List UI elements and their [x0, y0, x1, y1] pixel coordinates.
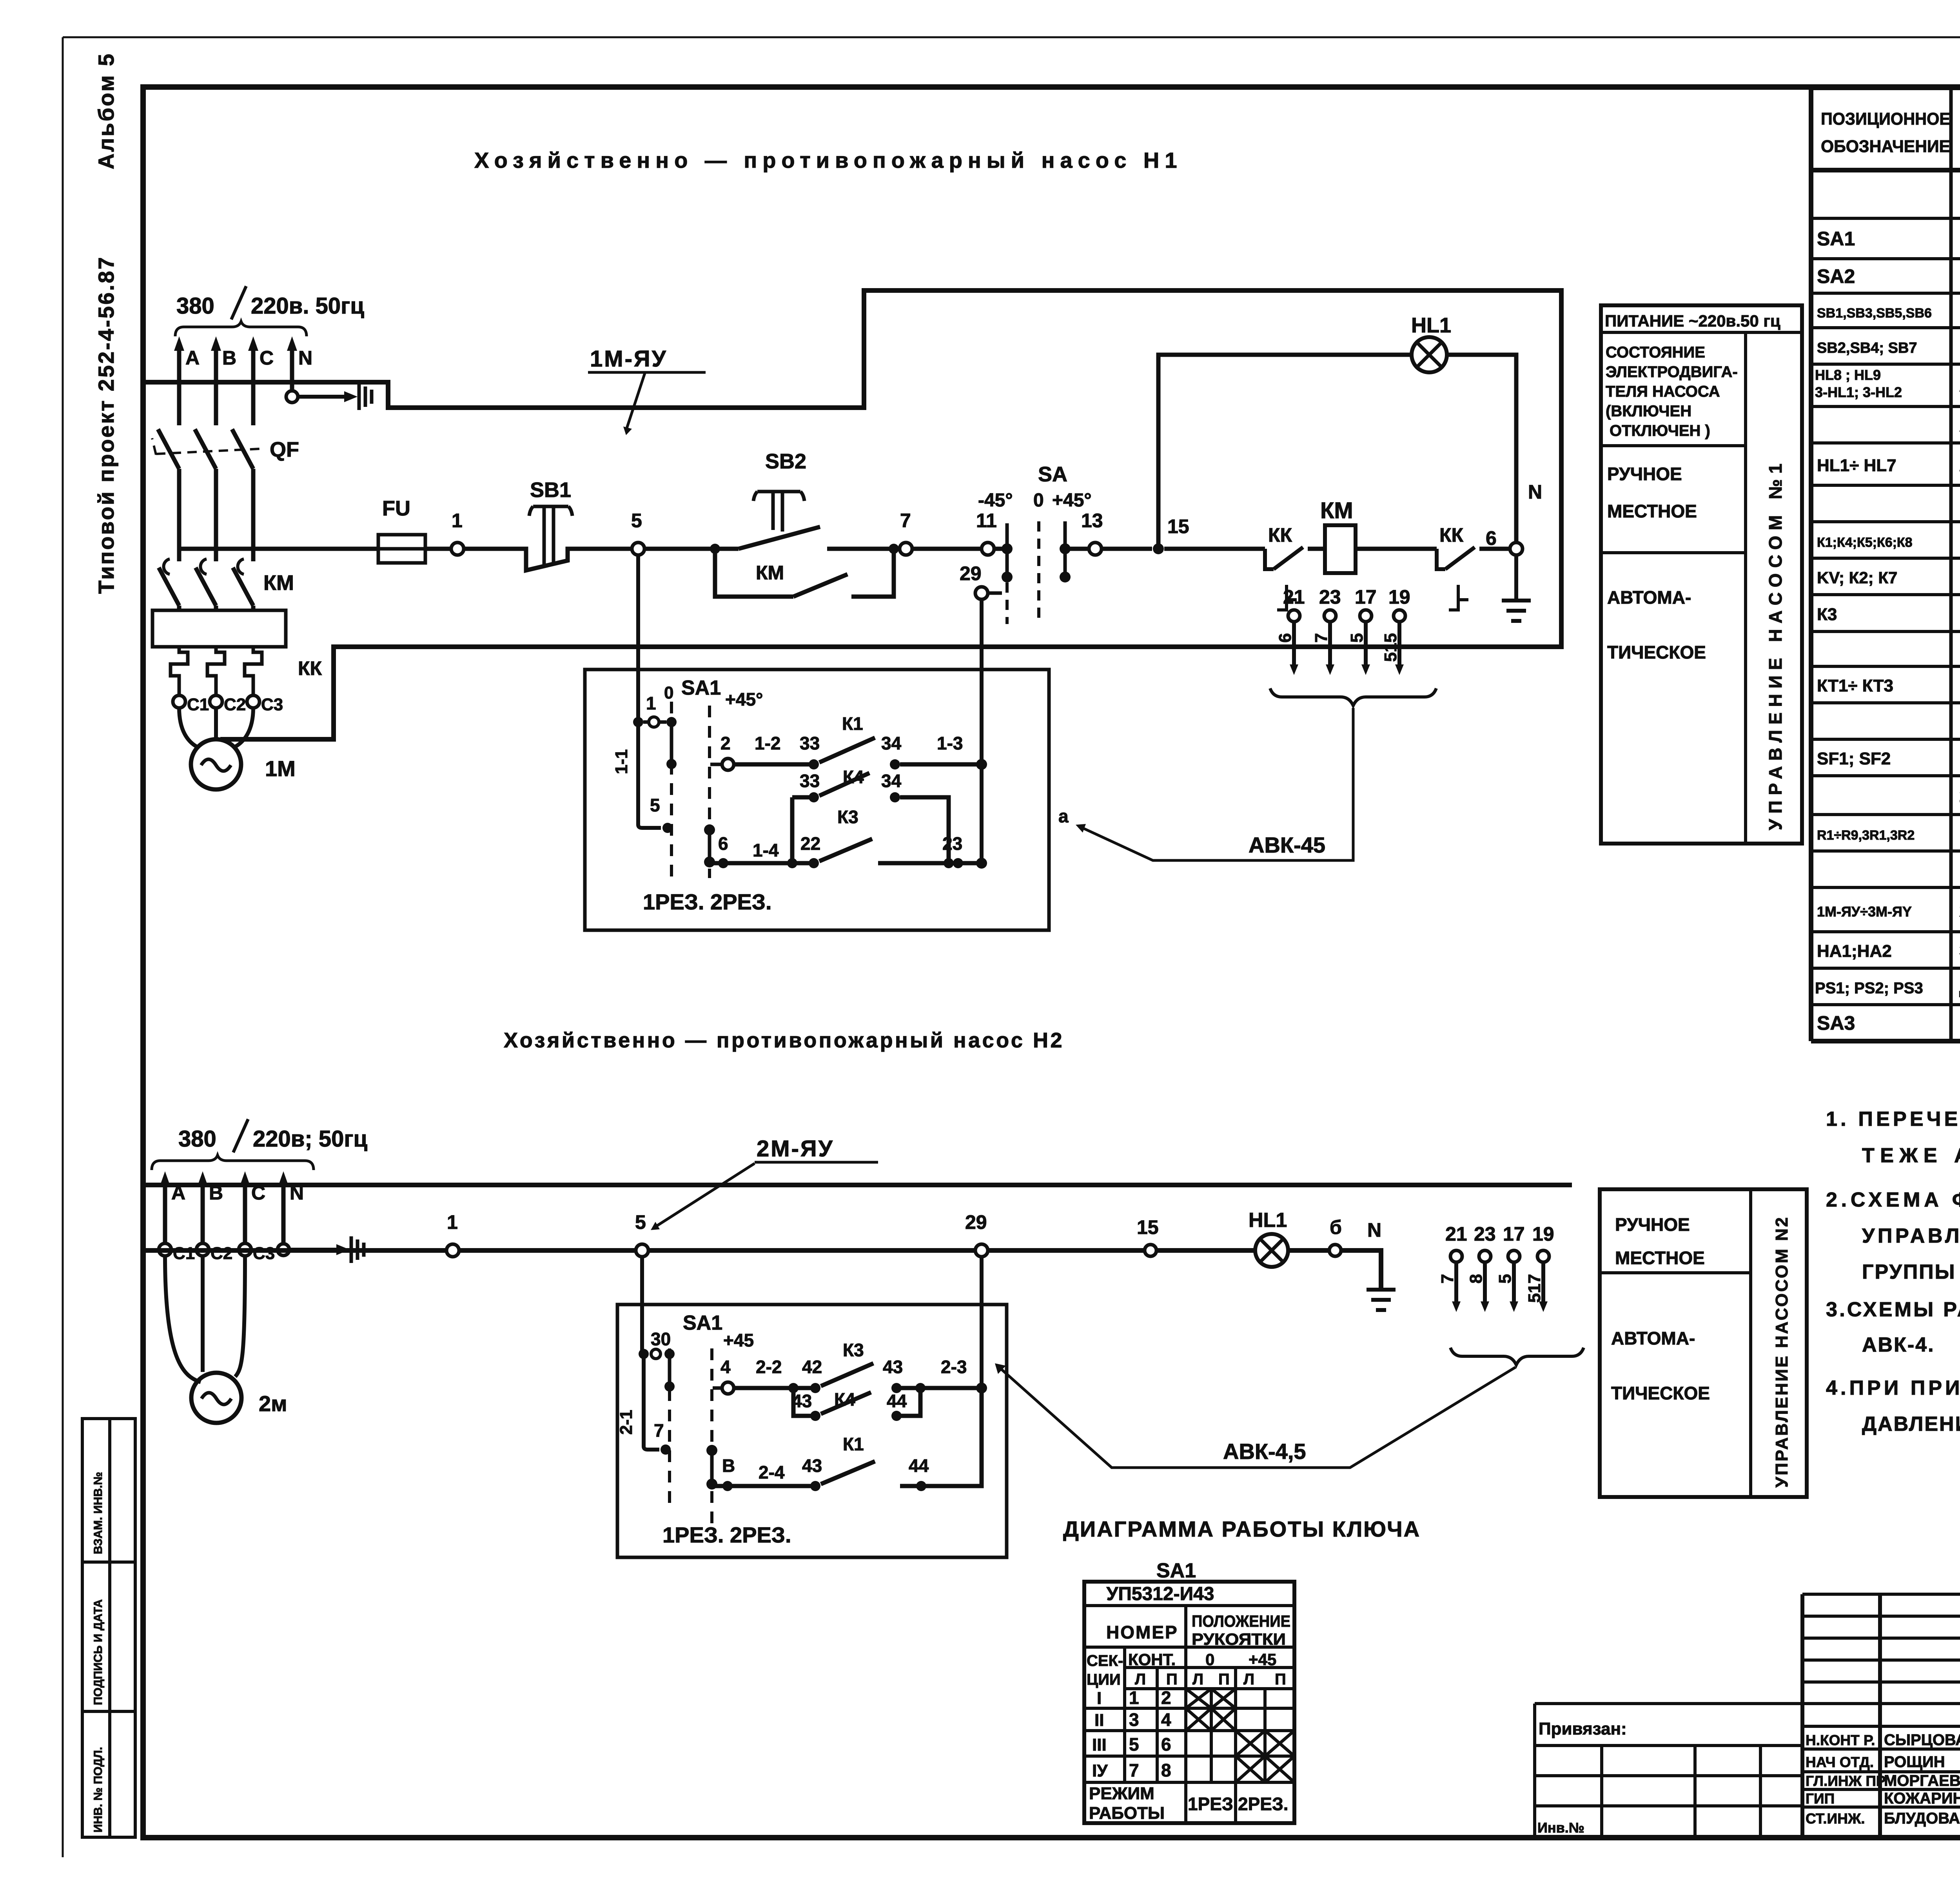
- node 1: [451, 543, 464, 555]
- node 5 N2: [636, 1244, 648, 1257]
- signal description box N1: [1601, 305, 1802, 844]
- node 11: [982, 543, 994, 555]
- thermal relay KK box: [152, 610, 286, 647]
- svg-text:1. ПЕРЕЧЕНЬ ФУНКЦИОНАЛЬНЫХ ГРУ: 1. ПЕРЕЧЕНЬ ФУНКЦИОНАЛЬНЫХ ГРУПП ПРИВЕДЕ…: [1826, 1108, 1960, 1130]
- svg-text:1М-ЯУ: 1М-ЯУ: [590, 346, 668, 372]
- SA1 column +45 dashed N2: [710, 1348, 713, 1525]
- wire control rung N1: [179, 547, 1152, 551]
- node 29: [975, 587, 988, 599]
- svg-text:ГРУППЫ ≠1.: ГРУППЫ ≠1.: [1862, 1261, 1960, 1283]
- svg-text:КК: КК: [1439, 524, 1464, 546]
- svg-text:РУЧНОЕ: РУЧНОЕ: [1607, 464, 1682, 484]
- svg-text:АВК-45: АВК-45: [1249, 833, 1325, 857]
- svg-text:С1: С1: [187, 695, 209, 714]
- svg-text:2-2: 2-2: [756, 1357, 782, 1377]
- svg-text:СЫРЦОВА: СЫРЦОВА: [1884, 1731, 1960, 1749]
- SA1 column +45 dashed N1: [708, 706, 711, 878]
- svg-text:4: 4: [720, 1357, 731, 1377]
- relay contact K1 rung N2: [712, 1388, 982, 1486]
- motor 2M: [191, 1373, 241, 1423]
- svg-text:21: 21: [1283, 586, 1305, 608]
- svg-text:РАБОТЫ: РАБОТЫ: [1089, 1804, 1165, 1823]
- svg-text:23: 23: [942, 833, 962, 854]
- svg-text:1-4: 1-4: [753, 840, 779, 860]
- svg-text:220в. 50гц: 220в. 50гц: [251, 293, 364, 319]
- wire phase bus N1: [143, 290, 1561, 739]
- svg-text:(ВКЛЮЧЕН: (ВКЛЮЧЕН: [1606, 403, 1691, 420]
- callout AVK-45 N2: [1000, 1367, 1515, 1468]
- svg-text:АВК-4,5: АВК-4,5: [1223, 1439, 1306, 1464]
- svg-text:1РЕЗ. 2РЕЗ.: 1РЕЗ. 2РЕЗ.: [662, 1522, 791, 1547]
- svg-text:П: П: [1218, 1671, 1230, 1688]
- SA1 contact 4 N2: [713, 1386, 721, 1390]
- relay contact K3 rung N2: [734, 1386, 982, 1390]
- svg-text:П: П: [1166, 1671, 1178, 1688]
- svg-text:SB2,SB4; SB7: SB2,SB4; SB7: [1817, 340, 1917, 356]
- svg-text:ПОЛОЖЕНИЕ: ПОЛОЖЕНИЕ: [1192, 1612, 1290, 1630]
- svg-text:4: 4: [1161, 1709, 1171, 1730]
- svg-text:7: 7: [1312, 633, 1331, 642]
- svg-text:6: 6: [1276, 633, 1295, 642]
- svg-text:5: 5: [635, 1211, 646, 1233]
- svg-text:517: 517: [1525, 1274, 1544, 1303]
- svg-text:43: 43: [883, 1357, 903, 1377]
- svg-text:К1: К1: [843, 1434, 864, 1454]
- svg-text:К4: К4: [834, 1389, 855, 1410]
- KK heater element: [245, 647, 262, 695]
- svg-text:С1: С1: [173, 1244, 195, 1263]
- wire node29 down: [980, 599, 984, 863]
- svg-text:ПОЗИЦИОННОЕ: ПОЗИЦИОННОЕ: [1821, 109, 1950, 129]
- svg-text:HL8 ; HL9: HL8 ; HL9: [1815, 367, 1881, 383]
- svg-text:СЕК-: СЕК-: [1087, 1652, 1123, 1669]
- svg-text:ГЛ.ИНЖ ПР: ГЛ.ИНЖ ПР: [1806, 1773, 1886, 1789]
- svg-text:1: 1: [646, 693, 656, 713]
- svg-text:8: 8: [1466, 1274, 1486, 1283]
- svg-text:МЕСТНОЕ: МЕСТНОЕ: [1607, 501, 1697, 521]
- svg-text:11: 11: [976, 510, 997, 532]
- svg-text:FU: FU: [382, 497, 410, 520]
- wire top bus N2: [143, 1183, 1572, 1187]
- left bottom stamp boxes: [82, 1419, 135, 1837]
- motor terminal 1: [173, 695, 185, 708]
- svg-text:РУЧНОЕ: РУЧНОЕ: [1615, 1214, 1690, 1235]
- KK heater element: [207, 647, 225, 695]
- svg-text:АВТОМА-: АВТОМА-: [1611, 1328, 1695, 1348]
- lamp HL1 N2: [1255, 1234, 1288, 1267]
- svg-text:17: 17: [1355, 586, 1377, 608]
- svg-text:0: 0: [1205, 1650, 1214, 1669]
- motor 1M: [191, 739, 241, 789]
- svg-text:HL1: HL1: [1411, 314, 1451, 337]
- svg-text:МОРГАЕВОВ: МОРГАЕВОВ: [1884, 1772, 1960, 1789]
- svg-text:В: В: [722, 1455, 735, 1476]
- svg-text:Инв.№: Инв.№: [1537, 1820, 1584, 1836]
- svg-text:ПОДПИСЬ И ДАТА: ПОДПИСЬ И ДАТА: [92, 1599, 105, 1705]
- svg-text:PS1; PS2; PS3: PS1; PS2; PS3: [1815, 980, 1923, 997]
- svg-text:34: 34: [881, 733, 902, 753]
- svg-text:SA: SA: [1038, 463, 1067, 486]
- svg-text:ЦИИ: ЦИИ: [1087, 1671, 1121, 1688]
- svg-text:НАЧ ОТД.: НАЧ ОТД.: [1806, 1754, 1874, 1770]
- svg-text:515: 515: [1381, 633, 1400, 662]
- wire control rung N2: [143, 1250, 1381, 1290]
- svg-text:2-1: 2-1: [617, 1410, 636, 1435]
- svg-text:УП5312-И43: УП5312-И43: [1106, 1584, 1214, 1604]
- svg-text:Л: Л: [1243, 1671, 1254, 1688]
- svg-text:43: 43: [792, 1391, 812, 1411]
- svg-text:2: 2: [1161, 1688, 1171, 1708]
- svg-text:2.СХЕМА ФУНКЦИОНАЛЬНОЙ ГРУПП: 2.СХЕМА ФУНКЦИОНАЛЬНОЙ ГРУППЫ ≠2 В ЧАСТИ…: [1826, 1188, 1960, 1211]
- svg-text:23: 23: [1474, 1223, 1496, 1245]
- svg-text:КТ1÷ КТ3: КТ1÷ КТ3: [1817, 676, 1893, 695]
- switch SA column 0: [1037, 521, 1040, 621]
- svg-text:19: 19: [1532, 1223, 1554, 1245]
- svg-text:SB1,SB3,SB5,SB6: SB1,SB3,SB5,SB6: [1817, 306, 1932, 321]
- svg-text:НОМЕР: НОМЕР: [1106, 1622, 1178, 1642]
- phase arrow &#1057; N2: [243, 1183, 247, 1243]
- SA1 contact 2 N1: [710, 763, 721, 766]
- parts table frame: [1811, 88, 1960, 1041]
- svg-text:SB1: SB1: [530, 478, 571, 502]
- cable bracket N1: [1270, 688, 1436, 706]
- svg-text:ПИТАНИЕ ~220в.50 гц: ПИТАНИЕ ~220в.50 гц: [1605, 312, 1780, 330]
- svg-text:34: 34: [881, 771, 902, 791]
- svg-text:+45°: +45°: [1052, 490, 1092, 511]
- svg-text:1: 1: [1129, 1688, 1139, 1708]
- svg-text:1: 1: [447, 1211, 458, 1233]
- svg-text:УПРАВЛЕНИЕ НАСОСОМ N2: УПРАВЛЕНИЕ НАСОСОМ N2: [1772, 1216, 1791, 1488]
- svg-text:ГИП: ГИП: [1806, 1791, 1835, 1807]
- phase arrow &#1042; N2: [201, 1183, 205, 1243]
- svg-text:II: II: [1094, 1711, 1104, 1730]
- svg-text:Альбом 5: Альбом 5: [94, 52, 118, 169]
- svg-text:Хозяйственно — противопожарный: Хозяйственно — противопожарный насос Н2: [504, 1029, 1064, 1052]
- svg-text:5: 5: [650, 795, 660, 815]
- privyazan block: [1535, 1704, 1802, 1837]
- svg-text:2РЕЗ.: 2РЕЗ.: [1238, 1794, 1289, 1814]
- svg-text:1: 1: [452, 510, 463, 532]
- svg-text:РУКОЯТКИ: РУКОЯТКИ: [1192, 1630, 1286, 1648]
- svg-text:Л: Л: [1135, 1671, 1146, 1688]
- svg-text:5: 5: [631, 510, 642, 532]
- cable bracket N2: [1450, 1348, 1584, 1365]
- svg-text:1РЕЗ. 2РЕЗ.: 1РЕЗ. 2РЕЗ.: [643, 889, 772, 914]
- svg-text:П: П: [1275, 1671, 1286, 1688]
- svg-text:А: А: [185, 347, 200, 369]
- svg-text:380: 380: [176, 293, 214, 319]
- svg-text:БЛУДОВА: БЛУДОВА: [1884, 1810, 1960, 1827]
- svg-text:SA1: SA1: [683, 1312, 722, 1334]
- phase arrow &#1057; N1: [251, 348, 256, 425]
- svg-text:19: 19: [1388, 586, 1410, 608]
- svg-text:44: 44: [909, 1455, 929, 1476]
- svg-text:ДИАГРАММА РАБОТЫ КЛЮЧА: ДИАГРАММА РАБОТЫ КЛЮЧА: [1063, 1517, 1421, 1541]
- node 6 N1: [1510, 543, 1523, 555]
- relay contact K3 rung: [710, 861, 982, 866]
- svg-text:HL1: HL1: [1249, 1209, 1287, 1232]
- svg-text:К1: К1: [842, 713, 863, 734]
- svg-text:1-3: 1-3: [937, 733, 963, 753]
- svg-text:5: 5: [1129, 1734, 1139, 1755]
- svg-text:СОСТОЯНИЕ: СОСТОЯНИЕ: [1606, 344, 1705, 361]
- svg-text:КК: КК: [1268, 524, 1292, 546]
- svg-text:23: 23: [1319, 586, 1341, 608]
- svg-text:МЕСТНОЕ: МЕСТНОЕ: [1615, 1248, 1705, 1268]
- svg-text:7: 7: [1129, 1760, 1139, 1780]
- svg-text:1М: 1М: [265, 756, 296, 781]
- title block signature table: [1802, 1594, 1960, 1837]
- svg-text:Н.КОНТ Р.: Н.КОНТ Р.: [1806, 1732, 1875, 1748]
- svg-text:б: б: [1330, 1216, 1342, 1238]
- wire node5 down to SA1: [636, 555, 640, 722]
- node 1 N2: [446, 1244, 459, 1257]
- svg-text:АВК-4.: АВК-4.: [1862, 1334, 1935, 1356]
- svg-text:К1;К4;К5;К6;К8: К1;К4;К5;К6;К8: [1817, 535, 1913, 550]
- svg-text:III: III: [1092, 1735, 1107, 1755]
- relay contact K4 row: [792, 797, 949, 863]
- svg-text:ОТКЛЮЧЕН ): ОТКЛЮЧЕН ): [1610, 422, 1710, 439]
- signal description box N2: [1600, 1189, 1807, 1497]
- relay contact K1 rung: [734, 762, 982, 767]
- circuit breaker QF: [158, 429, 179, 561]
- switch SA column +45: [1060, 543, 1071, 554]
- node 7: [900, 543, 912, 555]
- svg-text:380: 380: [178, 1126, 216, 1152]
- svg-text:KV; К2; К7: KV; К2; К7: [1817, 568, 1897, 587]
- svg-text:СТ.ИНЖ.: СТ.ИНЖ.: [1806, 1811, 1865, 1827]
- svg-text:3-HL1; 3-HL2: 3-HL1; 3-HL2: [1815, 384, 1902, 400]
- motor terminal 1 N2: [159, 1243, 171, 1256]
- svg-text:8: 8: [1161, 1760, 1171, 1780]
- fuse FU: [378, 535, 425, 563]
- SA1 column 0 dashed N2: [668, 1348, 671, 1511]
- svg-text:220в; 50гц: 220в; 50гц: [253, 1126, 368, 1152]
- svg-text:0: 0: [1033, 490, 1044, 511]
- svg-text:ОБОЗНАЧЕНИЕ: ОБОЗНАЧЕНИЕ: [1821, 137, 1950, 156]
- control box 1M-YU outline N1: [585, 670, 1049, 930]
- svg-text:К3: К3: [837, 807, 858, 827]
- svg-text:С2: С2: [224, 695, 246, 714]
- motor leads N1: [179, 708, 253, 748]
- svg-text:13: 13: [1081, 510, 1103, 532]
- phase arrow &#1040; N1: [177, 348, 181, 425]
- node 13: [1089, 543, 1102, 555]
- svg-text:3: 3: [1129, 1709, 1139, 1730]
- svg-text:21: 21: [1445, 1223, 1467, 1245]
- svg-text:N: N: [1528, 481, 1542, 503]
- svg-text:+45: +45: [723, 1330, 754, 1350]
- neutral arrow N N2: [281, 1183, 286, 1243]
- svg-text:2: 2: [720, 733, 731, 753]
- switch SA column -45: [1002, 543, 1013, 554]
- svg-text:НА1;НА2: НА1;НА2: [1817, 942, 1892, 961]
- svg-text:5: 5: [1347, 633, 1367, 642]
- node 29 N2: [975, 1244, 988, 1257]
- svg-text:ДАВЛЕНИЯ.: ДАВЛЕНИЯ.: [1862, 1413, 1960, 1435]
- svg-text:1-1: 1-1: [612, 749, 631, 774]
- svg-text:а: а: [1058, 806, 1069, 826]
- svg-text:УПРАВЛЕНИЕ НАСОСОМ №1: УПРАВЛЕНИЕ НАСОСОМ №1: [1765, 458, 1786, 830]
- terminal N circle and PE N2: [278, 1244, 289, 1256]
- motor terminal 3: [247, 695, 260, 708]
- callout AVK-45 N1: [1081, 708, 1353, 860]
- svg-text:SF1; SF2: SF1; SF2: [1817, 749, 1891, 768]
- svg-text:29: 29: [960, 563, 982, 584]
- svg-text:2-3: 2-3: [941, 1357, 967, 1377]
- brace N2 supply: [152, 1155, 314, 1170]
- svg-text:Типовой проект 252-4-56.87: Типовой проект 252-4-56.87: [94, 256, 118, 594]
- node 6 N2: [1329, 1245, 1341, 1256]
- svg-text:33: 33: [800, 733, 820, 753]
- svg-text:7: 7: [900, 510, 911, 532]
- svg-text:РОЩИН: РОЩИН: [1884, 1753, 1945, 1771]
- svg-text:15: 15: [1137, 1216, 1159, 1238]
- lamp HL1 N1: [1412, 337, 1447, 372]
- wire coil rung N1: [1164, 547, 1510, 551]
- svg-text:SA1: SA1: [1156, 1559, 1196, 1582]
- key table X marks: [1186, 1689, 1211, 1708]
- svg-text:SB2: SB2: [765, 450, 806, 473]
- svg-text:2М-ЯУ: 2М-ЯУ: [757, 1136, 834, 1161]
- svg-text:29: 29: [965, 1211, 987, 1233]
- svg-text:I: I: [1097, 1689, 1102, 1708]
- SA1 column 0 dashed N1: [670, 702, 673, 878]
- svg-text:SA3: SA3: [1817, 1012, 1855, 1034]
- svg-text:HL1÷ HL7: HL1÷ HL7: [1817, 456, 1896, 475]
- node 15: [1153, 543, 1164, 554]
- svg-text:КОЖАРИНОВА: КОЖАРИНОВА: [1884, 1790, 1960, 1807]
- svg-text:7: 7: [1438, 1274, 1457, 1283]
- node 15 N2: [1145, 1245, 1156, 1256]
- svg-text:SA2: SA2: [1817, 265, 1855, 287]
- svg-text:6: 6: [1486, 527, 1497, 549]
- svg-text:R1÷R9,3R1,3R2: R1÷R9,3R1,3R2: [1817, 828, 1915, 843]
- svg-text:ВЗАМ. ИНВ.№: ВЗАМ. ИНВ.№: [92, 1472, 105, 1554]
- svg-text:22: 22: [800, 833, 820, 854]
- relay contact K4 row N2: [793, 1388, 920, 1416]
- svg-text:КК: КК: [298, 657, 322, 679]
- svg-text:43: 43: [802, 1455, 822, 1476]
- svg-text:К3: К3: [843, 1340, 864, 1360]
- contactor KM auxiliary holding contact: [710, 544, 720, 554]
- svg-text:1М-ЯУ÷3М-ЯY: 1М-ЯУ÷3М-ЯY: [1817, 904, 1912, 920]
- neutral arrow N N1: [290, 348, 294, 390]
- svg-text:КОНТ.: КОНТ.: [1128, 1650, 1176, 1669]
- svg-text:РЕЖИМ: РЕЖИМ: [1089, 1784, 1154, 1803]
- svg-text:ЭЛЕКТРОДВИГА-: ЭЛЕКТРОДВИГА-: [1606, 363, 1738, 381]
- svg-text:33: 33: [800, 771, 820, 791]
- svg-text:SA1: SA1: [681, 677, 721, 699]
- svg-text:+45: +45: [1249, 1650, 1276, 1669]
- svg-text:0: 0: [664, 683, 673, 702]
- terminal N circle and PE arrow N1: [286, 391, 298, 403]
- svg-text:42: 42: [802, 1357, 822, 1377]
- svg-text:N: N: [298, 347, 312, 369]
- svg-text:С3: С3: [261, 695, 283, 714]
- svg-text:ИНВ. № ПОДЛ.: ИНВ. № ПОДЛ.: [92, 1747, 105, 1833]
- KK heater element: [171, 647, 188, 695]
- svg-text:6: 6: [718, 833, 728, 854]
- svg-text:1-2: 1-2: [755, 733, 780, 753]
- svg-text:2-4: 2-4: [759, 1462, 785, 1482]
- ground N2: [1367, 1290, 1396, 1310]
- svg-text:Привязан:: Привязан:: [1539, 1719, 1627, 1738]
- contactor KM main contacts: [159, 568, 179, 610]
- svg-text:+45°: +45°: [725, 689, 763, 709]
- svg-text:ТИЧЕСКОЕ: ТИЧЕСКОЕ: [1611, 1383, 1710, 1403]
- svg-text:С2: С2: [211, 1244, 232, 1263]
- svg-text:С: С: [260, 347, 274, 369]
- svg-text:17: 17: [1503, 1223, 1525, 1245]
- svg-text:4.ПРИ ПРИВЯЗКЕ ПРОЕКТА УТОЧНИ: 4.ПРИ ПРИВЯЗКЕ ПРОЕКТА УТОЧНИТЬ ШКАЛУ И …: [1826, 1377, 1960, 1399]
- svg-text:30: 30: [651, 1329, 671, 1349]
- svg-text:2м: 2м: [259, 1391, 287, 1416]
- svg-text:7: 7: [654, 1420, 664, 1441]
- contactor coil KM: [1325, 525, 1356, 573]
- svg-text:SA1: SA1: [1817, 228, 1855, 250]
- svg-text:С3: С3: [253, 1244, 275, 1263]
- svg-text:5: 5: [1495, 1274, 1515, 1283]
- svg-text:1РЕЗ: 1РЕЗ: [1188, 1794, 1233, 1814]
- svg-text:ТИЧЕСКОЕ: ТИЧЕСКОЕ: [1607, 642, 1706, 662]
- svg-text:-45°: -45°: [978, 490, 1013, 511]
- brace N1 supply: [175, 321, 307, 336]
- phase arrow &#1040; N2: [163, 1183, 167, 1243]
- key diagram table frame: [1084, 1582, 1294, 1823]
- motor terminal 2 N2: [196, 1243, 209, 1256]
- motor leads N2: [165, 1256, 245, 1382]
- svg-text:КМ: КМ: [756, 562, 784, 584]
- svg-text:Хозяйственно — противопожарный: Хозяйственно — противопожарный насос Н1: [474, 148, 1183, 172]
- svg-text:В: В: [222, 347, 236, 369]
- parts table row lines: [1811, 218, 1960, 1005]
- node 5: [632, 543, 644, 555]
- control box 2M-YU outline N2: [617, 1305, 1007, 1557]
- motor terminal 3 N2: [239, 1243, 251, 1256]
- svg-text:КМ: КМ: [1320, 498, 1353, 523]
- svg-text:К3: К3: [1817, 605, 1837, 624]
- SA1 contact 1 link: [633, 717, 643, 727]
- svg-text:КМ: КМ: [263, 571, 294, 595]
- svg-text:QF: QF: [270, 438, 299, 461]
- svg-text:15: 15: [1167, 515, 1189, 537]
- svg-text:АВТОМА-: АВТОМА-: [1607, 587, 1691, 608]
- ground N1: [1514, 555, 1518, 601]
- svg-text:IУ: IУ: [1092, 1761, 1108, 1780]
- svg-text:6: 6: [1161, 1734, 1171, 1755]
- svg-text:44: 44: [887, 1391, 907, 1411]
- wire lamp branch N1: [1158, 355, 1516, 549]
- svg-text:Л: Л: [1192, 1671, 1203, 1688]
- svg-text:ТЕЛЯ НАСОСА: ТЕЛЯ НАСОСА: [1606, 383, 1720, 400]
- phase arrow &#1042; N1: [214, 348, 218, 425]
- motor terminal 2: [210, 695, 222, 708]
- svg-text:N: N: [1367, 1219, 1381, 1241]
